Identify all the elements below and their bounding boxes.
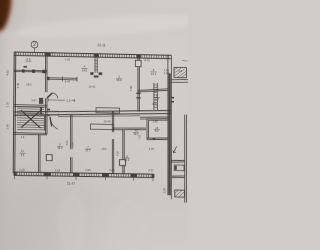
svg-text:2.05: 2.05 — [85, 168, 91, 172]
corridor bottom wall — [14, 107, 171, 119]
svg-text:24.2: 24.2 — [57, 146, 63, 150]
closet box lower — [91, 124, 114, 130]
svg-text:4.70: 4.70 — [144, 58, 150, 62]
svg-text:8.9: 8.9 — [27, 57, 31, 61]
windowed partition right of room 5 — [154, 83, 157, 110]
arrow mark — [173, 146, 177, 153]
svg-text:6.47: 6.47 — [65, 80, 71, 84]
svg-text:7.90: 7.90 — [129, 85, 133, 91]
svg-text:5.80: 5.80 — [71, 142, 75, 148]
svg-text:21.47: 21.47 — [67, 182, 75, 186]
room 4 / room 5 divider wall — [138, 55, 139, 112]
svg-text:7.47: 7.47 — [65, 57, 71, 61]
plan drawing group — [6, 41, 189, 203]
svg-text:2.6: 2.6 — [178, 70, 182, 73]
svg-text:4.77: 4.77 — [148, 168, 154, 172]
svg-text:16.4: 16.4 — [116, 78, 122, 82]
room 2 bottom wall — [14, 105, 47, 107]
svg-text:19.1: 19.1 — [133, 132, 139, 136]
svg-text:4.40: 4.40 — [16, 82, 20, 88]
svg-text:9.5: 9.5 — [21, 153, 25, 157]
left exterior wall — [13, 52, 16, 173]
svg-text:2.88: 2.88 — [152, 119, 158, 123]
svg-text:17.7: 17.7 — [85, 149, 91, 153]
svg-text:3.10: 3.10 — [66, 140, 69, 146]
svg-text:14.1: 14.1 — [151, 72, 157, 76]
closet box on corridor wall — [96, 108, 120, 113]
kitchen partition wall — [112, 111, 113, 174]
storeroom 8.2 box — [147, 118, 168, 140]
svg-text:3.16: 3.16 — [55, 168, 61, 172]
corridor door arc — [50, 117, 58, 129]
svg-text:16.1: 16.1 — [26, 82, 32, 86]
staircase cross — [21, 110, 41, 128]
room divider stub wall — [95, 58, 97, 73]
svg-text:4.16: 4.16 — [116, 151, 119, 157]
svg-text:10.41: 10.41 — [89, 84, 96, 88]
lower horizontal partition — [112, 127, 146, 130]
opening dim 2.0 ticks — [49, 98, 75, 102]
left vertical spine wall (rooms 1-2 / stairs) — [46, 53, 47, 135]
svg-text:1.78: 1.78 — [6, 102, 10, 108]
stub door jambs — [90, 53, 102, 77]
svg-text:3.29: 3.29 — [163, 188, 167, 194]
bath partition wall — [123, 130, 124, 174]
vent shaft square B — [120, 160, 126, 166]
svg-text:1.05: 1.05 — [164, 72, 169, 75]
door arc into hall — [52, 93, 57, 98]
top exterior wall (windowed) — [14, 52, 171, 59]
svg-text:2.36: 2.36 — [6, 124, 10, 130]
pilaster box on divider — [135, 60, 141, 66]
svg-text:2: 2 — [33, 42, 36, 48]
faint mark near top-right wall end — [182, 60, 188, 63]
right edge corridor fragment — [171, 114, 186, 202]
svg-text:9.7: 9.7 — [155, 97, 159, 101]
neighbour entry hatched box — [175, 190, 185, 197]
hall door jamb cluster — [40, 107, 50, 116]
svg-text:4.33: 4.33 — [152, 102, 158, 106]
finger blob top-left — [0, 0, 14, 35]
neighbour top wall — [171, 79, 188, 82]
svg-text:1.9: 1.9 — [21, 136, 25, 139]
door leaf — [47, 93, 52, 98]
paper streaks bottom — [58, 192, 86, 250]
svg-text:14.0: 14.0 — [82, 68, 88, 72]
paper background — [0, 0, 188, 250]
circled level number 2 — [31, 41, 38, 52]
stair bottom wall — [14, 133, 47, 135]
staircase treads — [17, 107, 44, 130]
party wall door jambs — [172, 97, 174, 103]
door jamb block — [39, 98, 43, 104]
finger highlight edge — [4, 0, 9, 25]
svg-text:4.97: 4.97 — [149, 147, 155, 151]
door jamb stubs below corridor — [44, 116, 45, 131]
corridor door leaf — [50, 117, 52, 126]
bottom exterior wall (windowed) — [14, 171, 154, 178]
paper highlight streak — [15, 10, 206, 41]
svg-text:2.10: 2.10 — [19, 168, 25, 172]
right exterior / party wall — [168, 55, 171, 199]
svg-text:2.86: 2.86 — [109, 168, 115, 172]
bottom wall piers (solid) — [14, 171, 155, 178]
svg-text:13.4: 13.4 — [102, 148, 107, 151]
central lower partition wall — [71, 115, 72, 174]
room 1 door jambs — [22, 66, 46, 73]
svg-text:3.47: 3.47 — [31, 99, 37, 103]
finger shadow on paper — [0, 0, 27, 31]
svg-text:2.0: 2.0 — [67, 99, 71, 103]
room 1 bottom wall — [14, 70, 47, 72]
vent shaft square A — [46, 155, 52, 161]
divider tick marks — [136, 93, 140, 99]
corridor top wall — [47, 76, 77, 81]
svg-text:1б: 1б — [21, 149, 24, 153]
svg-text:11.9: 11.9 — [124, 158, 129, 162]
label fraction bars — [20, 61, 161, 159]
svg-text:10.45: 10.45 — [103, 119, 111, 123]
svg-text:4.03: 4.03 — [6, 70, 10, 76]
bottom dimension ticks — [15, 175, 154, 182]
svg-text:8.2: 8.2 — [155, 129, 159, 133]
finger dark core — [0, 0, 10, 32]
svg-text:22.11: 22.11 — [97, 43, 105, 47]
lower-left partition wall — [39, 135, 40, 173]
neighbour hatched balcony box — [174, 67, 187, 77]
room 8 top wall — [138, 88, 168, 92]
